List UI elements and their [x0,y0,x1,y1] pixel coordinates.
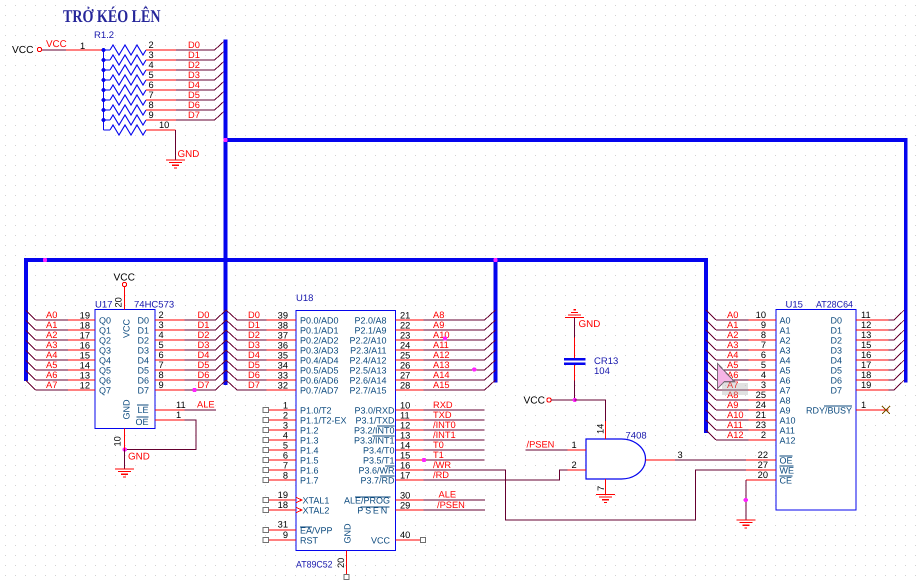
svg-text:D4: D4 [188,80,200,90]
U18 pin 40 VCC (no connect) [396,539,422,541]
U15 pin 15 D3 [856,349,889,351]
wire A10 to address bus (U15) [716,419,749,421]
svg-text:7408: 7408 [626,431,647,442]
svg-text:3: 3 [283,421,288,431]
svg-text:7: 7 [761,340,766,350]
svg-text:24: 24 [756,400,766,410]
svg-text:A2: A2 [727,330,738,340]
wire A7 to address bus (U15) [716,389,749,391]
svg-text:VCC: VCC [12,45,34,56]
svg-text:25: 25 [400,351,410,361]
svg-text:P1.7: P1.7 [300,476,319,486]
U18 pin 23 P2.2 [396,339,424,341]
wire VCC to gate pin 14 [551,399,575,401]
svg-text:Q3: Q3 [99,346,111,356]
wire D7 U17 to data bus [185,389,216,391]
svg-text:D6: D6 [830,376,842,386]
svg-text:22: 22 [400,321,410,331]
svg-text:T1: T1 [433,450,444,460]
svg-text:P3.3/INT1: P3.3/INT1 [354,436,395,446]
wire to ground (U17) [124,450,126,470]
U17 pin 18 Q1 [68,329,95,331]
svg-text:A2: A2 [780,336,791,346]
U18 pin 20 GND (no connect) [346,551,348,575]
and gate U? 7408 [586,439,646,479]
U18 pin 24 P2.3 [396,349,424,351]
U15 pin 19 D7 [856,389,889,391]
svg-text:16: 16 [80,341,90,351]
svg-text:P2.2/A10: P2.2/A10 [349,336,386,346]
wire A6 to address bus (U15) [716,379,749,381]
U18 pin 37 P0.2 [267,339,297,341]
bus A8-A15 vertical [494,260,498,383]
wire A4 to address bus [36,359,69,361]
U18 pin 19 XTAL1 (no connect) [268,499,296,501]
svg-text:33: 33 [278,371,288,381]
svg-text:D3: D3 [830,346,842,356]
svg-text:3: 3 [678,450,683,460]
wire D1 U17 to data bus [185,329,216,331]
svg-text:XTAL2: XTAL2 [303,506,330,516]
svg-text:P0.2/AD2: P0.2/AD2 [300,336,339,346]
U18 pin 39 P0.0 [267,319,297,321]
svg-text:D5: D5 [137,366,149,376]
wire A14 to address bus [423,379,484,381]
U17 pin 11 LE [155,409,185,411]
junction A10 label dot [443,336,447,340]
svg-text:P1.3: P1.3 [300,436,319,446]
wire D4 U18 to data bus [237,359,267,361]
svg-text:14: 14 [400,441,410,451]
svg-text:2: 2 [283,411,288,421]
U17 pin 6 D4 [155,359,185,361]
svg-text:17: 17 [400,471,410,481]
wire /INT1 stub [423,439,484,441]
svg-text:P1.1/T2-EX: P1.1/T2-EX [300,416,347,426]
U17 pin 5 D3 [155,349,185,351]
wire A4 to address bus (U15) [716,359,749,361]
U18 pin 26 P2.5 [396,369,424,371]
svg-text:7: 7 [159,360,164,370]
wire D2 U17 to data bus [185,339,216,341]
wire A0 to address bus [36,319,69,321]
svg-text:A7: A7 [46,380,57,390]
U15 pin 3 A7 [749,389,777,391]
junction T1 pin dot [422,458,426,462]
svg-text:D2: D2 [137,336,149,346]
wire D0 to data bus (U15) [889,319,895,321]
wire D5 U17 to data bus [185,369,216,371]
svg-text:P1.2: P1.2 [300,426,319,436]
svg-text:D2: D2 [188,60,200,70]
svg-text:7: 7 [283,461,288,471]
U18 pin 13 P3.3 [396,439,424,441]
svg-text:D6: D6 [198,370,210,380]
svg-text:Q4: Q4 [99,356,111,366]
svg-text:8: 8 [283,471,288,481]
svg-text:19: 19 [278,490,288,500]
svg-text:A11: A11 [780,426,795,436]
svg-text:6: 6 [283,451,288,461]
svg-text:15: 15 [400,451,410,461]
wire D3 to data bus (U15) [889,349,895,351]
U15 pin 22 OE [746,459,776,461]
svg-text:/RD: /RD [433,470,449,480]
svg-text:CE: CE [780,476,793,486]
svg-text:D7: D7 [188,110,200,120]
svg-text:P1.6: P1.6 [300,466,319,476]
U18 pin 38 P0.1 [267,329,297,331]
U18 pin 28 P2.7 [396,389,424,391]
U17 pin 16 Q3 [68,349,95,351]
wire D6 to data bus (U15) [889,379,895,381]
svg-text:D7: D7 [137,386,149,396]
wire A12 to address bus [423,359,484,361]
wire CR13 to VCC node [574,381,576,401]
wire D5 (pull-up to data bus) [176,99,215,101]
svg-text:10: 10 [113,436,123,446]
svg-text:31: 31 [278,520,288,530]
svg-text:A10: A10 [727,410,744,420]
svg-text:A4: A4 [727,350,738,360]
wire /RD to gate input 2 [423,470,567,480]
svg-text:23: 23 [400,331,410,341]
svg-text:34: 34 [278,361,288,371]
svg-text:Q2: Q2 [99,336,111,346]
wire D6 U18 to data bus [237,379,267,381]
U18 pin 11 P3.1 [396,419,424,421]
ground (U15 CE) [736,519,755,521]
U18 pin 4 P1.3 (no connect) [268,439,296,441]
wire T1 stub [423,459,484,461]
svg-text:13: 13 [80,371,90,381]
svg-text:RST: RST [300,536,319,546]
svg-text:/INT0: /INT0 [433,420,456,430]
svg-text:P2.1/A9: P2.1/A9 [354,326,386,336]
U17 pin 4 D2 [155,339,185,341]
U18 pin 15 P3.5 [396,459,424,461]
wire ALE stub (U18) [423,499,485,501]
svg-text:22: 22 [758,450,768,460]
U15 pin 5 A5 [749,369,777,371]
svg-text:LE: LE [137,405,148,415]
svg-text:7: 7 [596,486,606,491]
svg-text:9: 9 [149,110,154,120]
U17 pin 17 Q2 [68,339,95,341]
svg-text:Q0: Q0 [99,316,111,326]
svg-text:D7: D7 [198,380,210,390]
svg-text:D2: D2 [248,330,260,340]
svg-text:11: 11 [176,400,186,410]
svg-text:D0: D0 [198,310,210,320]
svg-text:16: 16 [861,350,871,360]
svg-text:1: 1 [283,401,288,411]
svg-text:Q6: Q6 [99,376,111,386]
svg-text:2: 2 [149,40,154,50]
no-connect cross [882,406,890,414]
svg-text:3: 3 [149,50,154,60]
wire A0 to address bus (U15) [716,319,749,321]
U15 pin 25 A8 [749,399,777,401]
svg-text:OE: OE [135,417,148,427]
svg-text:RXD: RXD [433,400,453,410]
U17 pin 15 Q4 [68,359,95,361]
svg-text:D7: D7 [830,386,842,396]
svg-text:4: 4 [159,330,164,340]
wire A5 to address bus [36,369,69,371]
svg-text:D2: D2 [198,330,210,340]
svg-text:15: 15 [80,351,90,361]
svg-text:D3: D3 [198,340,210,350]
U15 pin 8 A2 [749,339,777,341]
svg-text:P3.5/T1: P3.5/T1 [363,456,395,466]
U17 pin 13 Q6 [68,379,95,381]
svg-text:RDY/BUSY: RDY/BUSY [806,406,852,416]
wire D1 U18 to data bus [237,329,267,331]
svg-text:D3: D3 [248,340,260,350]
U18 pin 22 P2.1 [396,329,424,331]
wire A11 to address bus [423,349,484,351]
svg-text:A12: A12 [433,350,450,360]
U15 pin 24 A9 [749,409,777,411]
svg-text:35: 35 [278,351,288,361]
svg-text:5: 5 [159,340,164,350]
svg-text:A13: A13 [433,360,450,370]
svg-text:GND: GND [343,523,353,544]
U17 pin 2 D0 [155,319,185,321]
svg-text:6: 6 [159,350,164,360]
svg-text:21: 21 [756,410,766,420]
junction OE/GND wire [123,447,127,451]
svg-text:/WR: /WR [433,460,451,470]
U15 pin 20 CE [746,479,776,481]
svg-text:A9: A9 [433,320,444,330]
svg-text:P0.5/AD5: P0.5/AD5 [300,366,339,376]
mouse cursor artifact [718,364,735,389]
wire CE to ground [745,480,747,520]
svg-text:A15: A15 [433,380,450,390]
svg-text:GND: GND [178,149,200,160]
wire A1 to address bus (U15) [716,329,749,331]
wire D7 (pull-up to data bus) [176,119,215,121]
svg-text:D4: D4 [248,350,260,360]
svg-text:AT89C52: AT89C52 [296,560,333,571]
svg-text:11: 11 [861,310,871,320]
svg-text:16: 16 [400,461,410,471]
svg-text:A3: A3 [727,340,738,350]
svg-text:A10: A10 [780,416,796,426]
svg-text:14: 14 [596,424,606,434]
wire TXD stub [423,419,484,421]
svg-text:6: 6 [149,80,154,90]
svg-text:A12: A12 [727,430,744,440]
wire A2 to address bus (U15) [716,339,749,341]
wire A1 to address bus [36,329,69,331]
svg-text:24: 24 [400,341,410,351]
svg-text:P2.4/A12: P2.4/A12 [349,356,386,366]
svg-text:39: 39 [278,311,288,321]
svg-text:12: 12 [861,320,871,330]
svg-text:15: 15 [861,340,871,350]
wire A9 to address bus [423,329,484,331]
svg-text:P3.1/TXD: P3.1/TXD [355,416,395,426]
svg-text:11: 11 [400,411,410,421]
wire T0 stub [423,449,484,451]
U15 pin 17 D5 [856,369,889,371]
U17 pin 7 D5 [155,369,185,371]
U18 pin 31 EA/VPP (no connect) [268,529,296,531]
U18 pin 10 P3.0 [396,409,424,411]
svg-text:P2.3/A11: P2.3/A11 [350,346,386,356]
svg-text:D0: D0 [830,316,842,326]
wire D1 to data bus (U15) [889,329,895,331]
wire D1 (pull-up to data bus) [176,59,215,61]
svg-text:A7: A7 [780,386,791,396]
svg-text:A1: A1 [780,326,791,336]
svg-text:9: 9 [283,530,288,540]
wire D4 (pull-up to data bus) [176,89,215,91]
U17 pin 9 D7 [155,389,185,391]
svg-text:30: 30 [400,490,410,500]
svg-text:5: 5 [283,441,288,451]
bus data vertical (D0-D7) [224,40,228,386]
gate pin 3 output [646,459,676,461]
svg-text:D0: D0 [188,40,200,50]
U17 pin 8 D6 [155,379,185,381]
wire A3 to address bus [36,349,69,351]
U18 pin 6 P1.5 (no connect) [268,459,296,461]
U15 pin 16 D4 [856,359,889,361]
svg-text:25: 25 [756,390,766,400]
microcontroller U18 AT89C52 [296,311,396,551]
svg-text:D5: D5 [198,360,210,370]
svg-text:4: 4 [149,60,154,70]
svg-text:GND: GND [122,399,132,420]
wire D2 to data bus (U15) [889,339,895,341]
svg-text:/PSEN: /PSEN [437,500,465,510]
wire D7 U18 to data bus [237,389,267,391]
svg-text:29: 29 [400,500,410,510]
U18 pin 8 P1.7 (no connect) [268,479,296,481]
svg-text:GND: GND [128,452,150,463]
U17 pin 1 OE [155,419,185,421]
svg-text:P2.5/A13: P2.5/A13 [349,366,386,376]
U18 pin 9 RST (no connect) [268,539,296,541]
resistor element pin 5 [104,79,111,81]
svg-text:P2.7/A15: P2.7/A15 [349,386,386,396]
svg-text:20: 20 [114,297,124,307]
latch U17 74HC573 [95,310,155,429]
svg-text:A11: A11 [727,420,743,430]
U15 pin 11 D0 [856,319,889,321]
svg-text:A3: A3 [46,340,57,350]
svg-text:A5: A5 [780,366,791,376]
U15 pin 4 A6 [749,379,777,381]
svg-text:A9: A9 [780,406,791,416]
svg-text:VCC: VCC [524,396,546,407]
svg-text:10: 10 [159,120,169,130]
U18 pin 25 P2.4 [396,359,424,361]
svg-text:A1: A1 [46,320,57,330]
U15 pin 13 D2 [856,339,889,341]
wire /PSEN stub (U18) [423,509,485,511]
svg-text:D5: D5 [830,366,842,376]
svg-text:VCC: VCC [46,39,67,50]
svg-text:D7: D7 [248,380,260,390]
U15 pin 10 A0 [749,319,777,321]
wire A10 to address bus [423,339,484,341]
svg-text:A0: A0 [46,310,57,320]
svg-text:ALE: ALE [197,400,215,410]
svg-text:20: 20 [758,470,768,480]
resistor element pin 7 [104,99,111,101]
svg-text:P0.0/AD0: P0.0/AD0 [300,316,339,326]
U18 pin 3 P1.2 (no connect) [268,429,296,431]
capacitor CR13 104 [574,338,576,360]
U17 pin 3 D1 [155,329,185,331]
svg-text:P1.4: P1.4 [300,446,319,456]
svg-text:ALE: ALE [439,490,457,500]
svg-text:26: 26 [400,361,410,371]
svg-text:OE: OE [780,456,793,466]
svg-text:27: 27 [758,460,768,470]
U17 pin 10 GND [124,429,126,450]
junction CE ground wire [744,498,748,502]
wire D7 to data bus (U15) [889,389,895,391]
wire A6 to address bus [36,379,69,381]
ground (gate) [596,494,615,496]
svg-text:P1.0/T2: P1.0/T2 [300,406,332,416]
svg-text:WE: WE [780,466,795,476]
svg-text:12: 12 [80,381,90,391]
wire VCC to R1.2 pin 1 [42,49,66,51]
wire /WR to U15 WE [423,470,746,520]
U15 pin 7 A3 [749,349,777,351]
wire RXD stub [423,409,484,411]
wire A8 to address bus [423,319,484,321]
resistor element pin 3 [104,59,111,61]
U18 pin 1 P1.0 (no connect) [268,409,296,411]
U15 pin 18 D6 [856,379,889,381]
svg-text:D0: D0 [137,316,149,326]
svg-text:P0.6/AD6: P0.6/AD6 [300,376,339,386]
svg-text:A9: A9 [727,400,738,410]
svg-text:GND: GND [579,319,601,330]
svg-text:P3.7/RD: P3.7/RD [360,476,395,486]
svg-text:7: 7 [149,90,154,100]
U18 pin 7 P1.6 (no connect) [268,469,296,471]
ground (U17) [115,468,134,470]
svg-text:18: 18 [80,321,90,331]
U15 pin 12 D1 [856,329,889,331]
svg-text:27: 27 [400,371,410,381]
U18 pin 18 XTAL2 (no connect) [268,509,296,511]
svg-text:13: 13 [400,431,410,441]
svg-text:40: 40 [400,530,410,540]
svg-text:1: 1 [572,440,577,450]
wire D6 U17 to data bus [185,379,216,381]
svg-text:D4: D4 [137,356,149,366]
svg-text:T0: T0 [433,440,444,450]
svg-text:21: 21 [400,311,410,321]
svg-text:A5: A5 [727,360,738,370]
wire A5 to address bus (U15) [716,369,749,371]
svg-text:D0: D0 [248,310,260,320]
U18 pin 17 P3.7 [396,479,424,481]
svg-text:R1.2: R1.2 [94,30,114,41]
svg-text:A2: A2 [46,330,57,340]
svg-text:4: 4 [761,370,766,380]
